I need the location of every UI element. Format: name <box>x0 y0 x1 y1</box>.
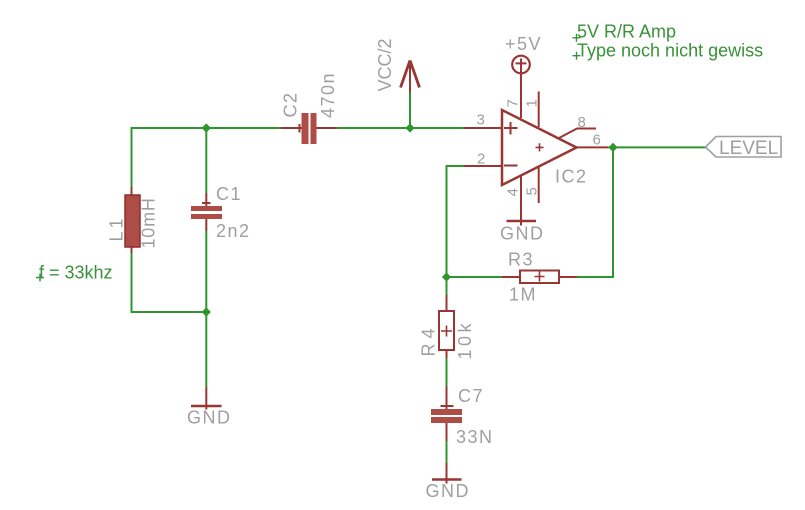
pin left ground <box>205 387 207 410</box>
svg-text:1: 1 <box>524 99 541 107</box>
svg-text:LEVEL: LEVEL <box>719 138 778 159</box>
wire pin 2 down to feedback node <box>446 165 448 277</box>
svg-text:10k: 10k <box>455 320 475 360</box>
resistor R3 <box>520 271 559 284</box>
svg-text:R4: R4 <box>419 323 439 356</box>
wire bottom horizontal <box>131 311 207 313</box>
pin 1 op-amp vertical <box>538 92 540 128</box>
wire op-amp pin 2 horizontal <box>447 165 465 167</box>
svg-text:6: 6 <box>593 132 601 149</box>
svg-text:33N: 33N <box>456 427 494 447</box>
pin L1 top <box>131 187 133 195</box>
capacitor C1 plates <box>191 206 222 219</box>
svg-text:VCC/2: VCC/2 <box>375 38 395 91</box>
inductor L1 <box>125 195 140 247</box>
capacitor C7 plates <box>431 409 462 423</box>
svg-text:5: 5 <box>524 187 541 195</box>
wire between C2 and op-amp pin 3 <box>337 127 464 129</box>
pin 8 stub <box>559 129 596 139</box>
pin R3 right <box>559 276 577 278</box>
pin 4 op-amp vertical <box>520 176 522 226</box>
pin +5V down to op-amp pin 7 <box>520 74 522 118</box>
svg-text:1M: 1M <box>509 285 537 305</box>
origin cross C1 <box>202 202 211 204</box>
svg-text:GND: GND <box>426 481 471 501</box>
pin 3 op-amp <box>464 127 502 129</box>
op-amp plus input mark <box>504 122 518 135</box>
svg-text:7: 7 <box>505 99 522 107</box>
pin C2 left <box>281 127 302 129</box>
origin cross note 1 <box>573 34 581 42</box>
junction node output <box>608 143 617 152</box>
pin L1 bottom <box>131 247 133 253</box>
junction node at C1 top <box>202 123 211 132</box>
svg-text:5V R/R Amp: 5V R/R Amp <box>577 22 676 42</box>
pin C7 bottom <box>446 423 448 441</box>
ground symbol left <box>191 405 222 407</box>
wire below L1 <box>131 253 133 312</box>
pin C1 top <box>205 193 207 206</box>
pin 6 output <box>577 146 609 148</box>
svg-text:8: 8 <box>578 114 586 131</box>
junction node bottom left <box>202 307 211 316</box>
origin cross IC2 <box>536 143 544 151</box>
wire below C1 <box>205 231 207 311</box>
pin C1 bottom <box>205 219 207 231</box>
svg-text:2n2: 2n2 <box>216 221 251 241</box>
wire left branch down to L1 <box>131 127 133 187</box>
wire feedback node to R3 left <box>447 276 503 278</box>
op-amp minus input mark <box>504 165 518 167</box>
wire R3 right to corner <box>577 276 614 278</box>
svg-text:IC2: IC2 <box>555 167 588 187</box>
svg-text:Type noch nicht gewiss: Type noch nicht gewiss <box>577 41 763 61</box>
wire output to LEVEL flag <box>608 146 706 148</box>
svg-text:3: 3 <box>477 112 485 129</box>
pin C2 right <box>317 127 338 129</box>
svg-text:C2: C2 <box>281 91 301 117</box>
pin bottom ground <box>446 463 448 484</box>
svg-text:4: 4 <box>505 188 522 196</box>
svg-text:f = 33khz: f = 33khz <box>39 263 113 283</box>
op-amp IC2 triangle <box>502 110 577 185</box>
junction node at VCC/2 <box>405 123 414 132</box>
origin cross note 2 <box>573 52 581 60</box>
svg-text:+5V: +5V <box>505 34 542 54</box>
wire top-left horizontal net <box>132 127 282 129</box>
pin C7 top <box>446 386 448 409</box>
svg-text:10mH: 10mH <box>139 197 159 248</box>
VCC/2 supply arrow <box>401 61 420 93</box>
origin cross C2 <box>299 124 301 133</box>
wire feedback node down to R4 <box>446 277 448 295</box>
wire down to C1 <box>205 128 207 193</box>
ground symbol bottom <box>432 478 462 480</box>
origin cross C7 <box>441 405 454 407</box>
svg-text:R3: R3 <box>508 250 534 270</box>
pin R4 top <box>446 295 448 311</box>
svg-text:C7: C7 <box>458 386 484 406</box>
wire output corner vertical <box>612 147 614 278</box>
LEVEL net flag <box>706 137 782 160</box>
wire down to left ground <box>205 312 207 387</box>
svg-text:C1: C1 <box>216 184 242 204</box>
svg-text:470n: 470n <box>318 72 338 118</box>
pin R4 bottom <box>446 350 448 358</box>
svg-text:L1: L1 <box>107 215 127 241</box>
+5V supply symbol <box>512 56 530 74</box>
wire VCC/2 to main net <box>409 93 411 129</box>
origin cross note f <box>36 274 44 282</box>
svg-text:GND: GND <box>187 408 232 428</box>
pin R3 left <box>502 276 520 278</box>
pin 2 op-amp <box>464 165 502 167</box>
wire C7 to bottom ground <box>446 441 448 463</box>
svg-text:GND: GND <box>500 224 545 244</box>
capacitor C2 plates <box>302 113 317 144</box>
pin 5 op-amp vertical <box>538 167 540 204</box>
resistor R4 <box>439 311 454 350</box>
svg-text:2: 2 <box>477 151 485 168</box>
junction node feedback <box>442 272 451 281</box>
wire R4 to C7 <box>446 358 448 386</box>
ground symbol op-amp pin 4 <box>507 220 537 222</box>
